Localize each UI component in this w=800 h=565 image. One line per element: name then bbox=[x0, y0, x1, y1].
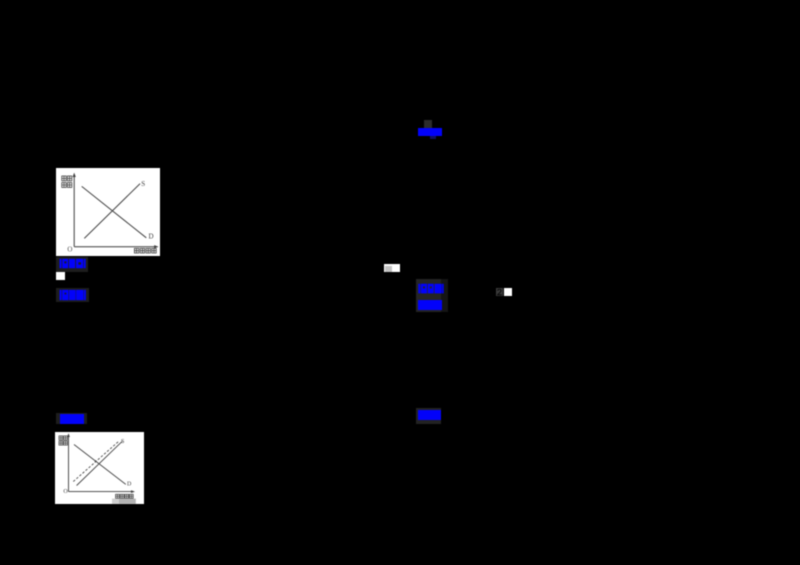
blue label E (left column, above graph 2) bbox=[56, 413, 87, 424]
y-axis label bbox=[59, 435, 67, 444]
svg-text:O: O bbox=[63, 489, 68, 495]
answer highlight A (blue bold text on dark bg) bbox=[56, 257, 88, 273]
svg-text:S: S bbox=[141, 180, 145, 188]
gray highlighted 2 + white highlighted space bbox=[496, 288, 503, 296]
y-axis label 粮食价格 (2 lines) bbox=[62, 176, 72, 187]
supply curve S bbox=[84, 184, 140, 239]
x-axis bbox=[69, 490, 133, 492]
white highlighted space bbox=[56, 272, 65, 280]
y-axis bbox=[73, 176, 75, 247]
middle dark box with two blue lines bbox=[416, 279, 441, 312]
answer highlight B (blue bold text on dark bg) bbox=[56, 288, 89, 302]
y-axis bbox=[68, 436, 70, 492]
demand curve D bbox=[82, 186, 147, 237]
dashed shifted supply curve bbox=[73, 440, 119, 481]
blue label C (middle column, top) with gray cap above bbox=[424, 120, 432, 128]
svg-text:D: D bbox=[149, 232, 154, 240]
svg-text:S: S bbox=[121, 439, 124, 445]
graph box 2: shifted supply chart with dashed S' bbox=[55, 432, 144, 505]
blue label F (middle column, bottom) bbox=[416, 408, 441, 424]
x-axis label 粮食数量 bbox=[134, 248, 156, 253]
junction dot on dashed line bbox=[95, 460, 97, 462]
svg-text:D: D bbox=[127, 481, 132, 487]
x-axis label bbox=[116, 494, 134, 498]
white highlight with gray glyph (left of middle column) bbox=[384, 264, 400, 273]
demand curve D bbox=[74, 444, 126, 484]
svg-text:O: O bbox=[67, 245, 72, 253]
gray highlight strip under x label bbox=[112, 498, 119, 503]
x-axis bbox=[74, 246, 155, 248]
supply curve S bbox=[77, 441, 123, 485]
graph box 1: supply-demand chart (grain price vs quantity) bbox=[56, 168, 160, 256]
